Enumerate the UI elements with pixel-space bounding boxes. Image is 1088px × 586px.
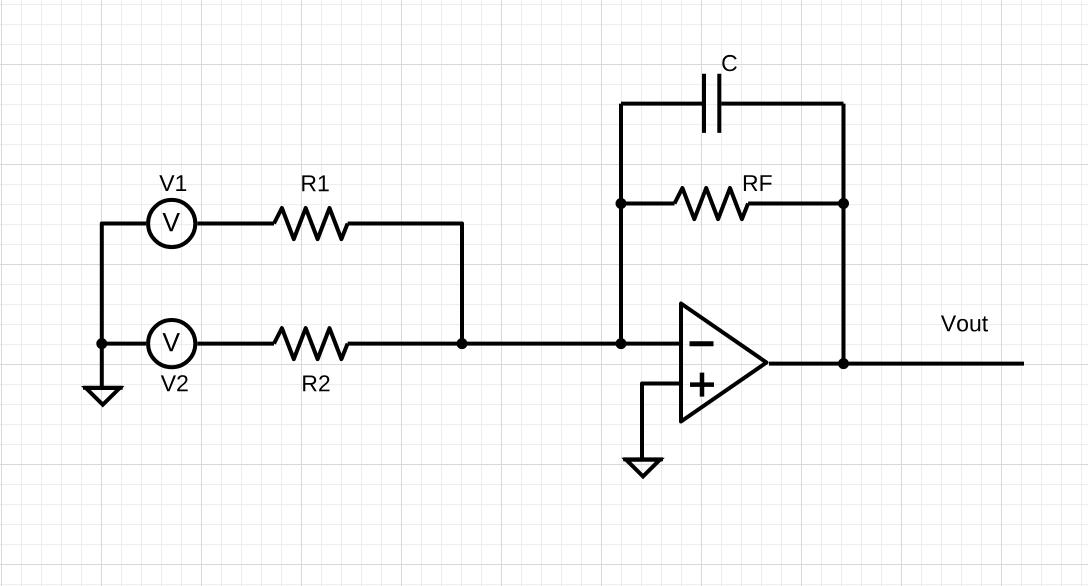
node: output junction [838,358,849,369]
wire: ground rail to V2 [102,342,146,346]
label C [722,55,737,71]
node: summing junction at inverting input [616,338,627,349]
wire: R2 to junction and on to op-amp inverting input [348,342,681,346]
wire: capacitor right plate to right rail [721,102,843,106]
ground: op-amp non-inverting triangle [626,460,660,477]
voltage source V2 circle [148,320,195,367]
ground: op-amp non-inverting bar [623,457,663,461]
label R1 [302,175,328,191]
label V2 [161,375,188,391]
label R2 [303,375,329,391]
wire: RF left lead [621,202,675,206]
wire: left vertical rail with corner to V1 [102,224,146,344]
voltmeter V2 letter [163,333,180,351]
ground: left bar [83,386,123,390]
wire: op-amp output to Vout [769,362,1024,366]
resistor R1 [274,208,348,239]
op-amp U1 non-inverting input plus [690,373,714,397]
ground: left (below sources) stem [100,344,104,388]
capacitor C plates [704,74,719,133]
label RF [744,175,772,191]
node: V1/V2/ground junction [96,338,107,349]
op-amp U1 inverting input bar [690,341,714,346]
label V1 [159,175,186,191]
resistor RF [675,188,749,219]
ground: left triangle [86,388,120,405]
wire: V1 to R1 lead [197,222,274,226]
wire: RF right lead [748,202,843,206]
wire: R1 to right corner, down to summing rail [348,224,462,344]
voltage source V1 circle [148,200,195,247]
node: RF left [616,198,627,209]
label Vout [941,316,988,332]
wire: V2 to R2 lead [197,342,274,346]
node: R1/R2 junction [457,338,468,349]
wire: right vertical rail (C/RF to output node) [842,104,846,364]
wire: feedback left vertical (node to C and RF) [619,104,623,344]
voltmeter V1 letter [163,213,180,231]
wire: non-inverting input to ground stem [642,384,681,460]
op-amp U1 triangle [681,304,767,422]
node: RF right [838,198,849,209]
wire: top branch to capacitor left plate [621,102,702,106]
resistor R2 [274,328,348,359]
